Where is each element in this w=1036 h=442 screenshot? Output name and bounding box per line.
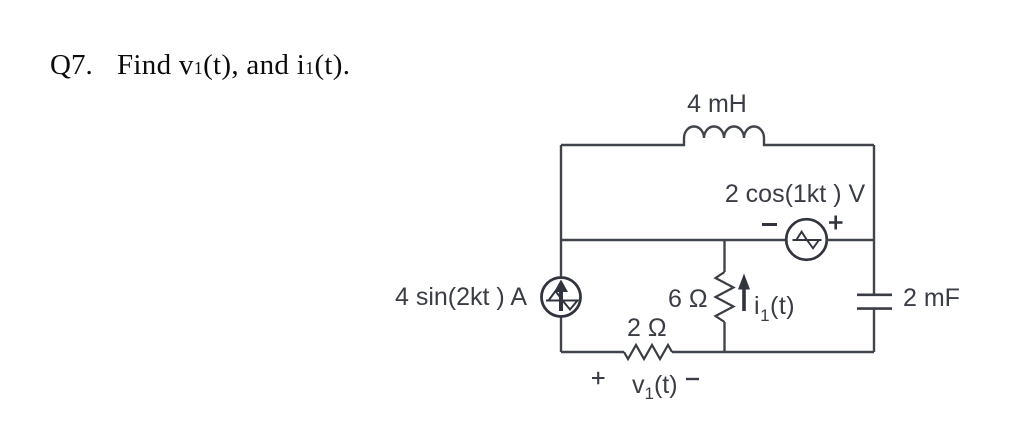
label plus of v1 xyxy=(592,372,605,385)
wire middle right (voltage source to right node) xyxy=(826,239,874,241)
label minus of v1 xyxy=(686,378,699,380)
svg-text:2 Ω: 2 Ω xyxy=(627,314,667,342)
capacitor C1 2 mF xyxy=(857,295,892,309)
svg-text:4 mH: 4 mH xyxy=(687,90,747,118)
wire left bottom (to current source) xyxy=(560,317,562,352)
wire right bottom (capacitor to bottom node) xyxy=(873,309,875,352)
wire left top (current source to top-left corner) xyxy=(560,145,562,277)
svg-text:6 Ω: 6 Ω xyxy=(668,285,708,313)
arrow i1 direction xyxy=(738,274,750,312)
label minus of voltage source xyxy=(762,223,777,226)
wire bottom right segment xyxy=(672,351,874,353)
svg-text:v1(t): v1(t) xyxy=(632,371,678,403)
svg-text:2 mF: 2 mF xyxy=(903,284,960,312)
svg-text:Q7.: Q7. xyxy=(50,49,93,81)
resistor R1 6 ohm (vertical zigzag) xyxy=(716,272,734,322)
wire middle branch top xyxy=(723,240,725,272)
svg-text:i1(t): i1(t) xyxy=(754,292,795,325)
wire right top (node to capacitor) xyxy=(873,145,875,294)
svg-text:Find v1(t), and i1(t).: Find v1(t), and i1(t). xyxy=(117,49,350,81)
current source I1 4 sin(2kt) A xyxy=(542,278,581,317)
svg-text:4 sin(2kt ) A: 4 sin(2kt ) A xyxy=(395,283,527,311)
label plus of voltage source xyxy=(829,216,843,230)
wire middle branch bottom xyxy=(723,322,725,352)
wire bottom left segment xyxy=(561,351,624,353)
inductor L1 4 mH (top wire with coil) xyxy=(561,127,874,146)
voltage source V1 2 cos(1kt) V xyxy=(786,219,827,260)
wire middle left (node to voltage source) xyxy=(561,239,787,241)
svg-text:2 cos(1kt ) V: 2 cos(1kt ) V xyxy=(725,180,866,208)
resistor R2 2 ohm (horizontal zigzag) xyxy=(624,345,672,359)
